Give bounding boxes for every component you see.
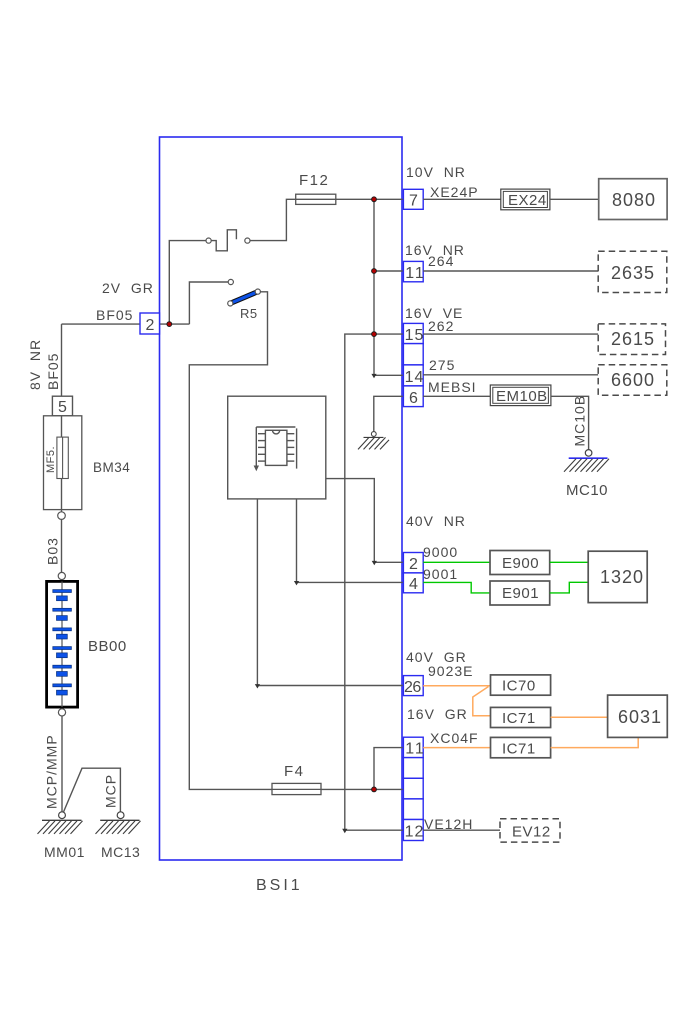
wire E901 to 1320 (green) [550,582,589,593]
node: F4 junction [372,787,377,792]
svg-text:12: 12 [405,824,425,841]
component 8080 [599,179,667,220]
thermal switch contact blade [211,230,236,251]
connector IC71 (lower) [491,737,551,757]
connector IC71 (middle) [491,707,551,727]
pin 2 [403,553,423,573]
svg-text:2: 2 [409,556,418,573]
internal ground node circle [371,432,376,437]
svg-text:7: 7 [409,193,418,210]
pin 11 [403,261,423,281]
svg-text:MC13: MC13 [101,844,140,860]
component 6031 [608,695,668,737]
relay contact R5 moving circle [255,289,260,294]
pin 14 [403,365,423,386]
empty pin box [403,758,423,779]
relay contact R5 pivot circle [228,301,233,306]
svg-text:MF5.: MF5. [45,446,57,473]
svg-text:MC10: MC10 [566,482,608,499]
ground MC10 [564,458,609,472]
svg-text:2: 2 [146,317,155,334]
IC chip symbol U1 [255,427,297,470]
connector E900 [490,551,550,575]
battery top connector circle [58,572,65,579]
connector circle below BM34 [58,512,66,520]
corner arrowheads [371,374,376,378]
svg-text:40V NR: 40V NR [406,513,466,529]
svg-text:9023E: 9023E [428,663,473,679]
wire IC71 lower to 6031 bottom (orange) [551,737,639,747]
svg-text:XE24P: XE24P [430,184,479,200]
svg-text:B03: B03 [45,537,61,565]
svg-text:EV12: EV12 [512,824,551,841]
svg-text:MC10B: MC10B [572,395,588,447]
wire through BM34 [61,416,63,512]
pin 4 [403,573,423,593]
svg-text:BSI1: BSI1 [256,877,303,894]
fuse holder BM34 [44,416,82,510]
connector E901 [490,581,550,605]
wire pin11 to 2635 [423,270,598,272]
pin 12 [403,820,423,841]
empty pin box [403,344,423,365]
MC10 ground node circle [585,450,592,457]
svg-text:IC71: IC71 [502,710,536,727]
wire MM01 to MC13 [64,768,121,812]
wire pin26 to IC70 (orange) [423,685,490,687]
svg-text:EM10B: EM10B [496,388,548,405]
svg-text:11: 11 [405,741,426,758]
battery BB00 [47,581,78,707]
component 2615 (dashed) [598,324,665,355]
wire: IC bottom-left to pin 26 [257,499,403,686]
BSI1 control unit box [160,137,403,860]
wire: IC right side to pin 2 [326,479,403,563]
svg-text:262: 262 [428,318,454,334]
svg-text:BB00: BB00 [88,638,127,655]
thermal switch left contact [206,238,211,243]
wire B03 to battery [61,519,63,572]
fuse MF5 inside BM34 [57,437,68,478]
svg-text:MEBSI: MEBSI [428,379,477,395]
wire: IC bottom-right to pin 4 [297,499,404,583]
pin 6 [403,386,423,407]
svg-text:E901: E901 [502,585,539,602]
svg-text:2V GR: 2V GR [102,280,154,296]
connector EM10B [490,385,551,406]
wire E900 to 1320 (green) [550,561,589,563]
svg-text:9001: 9001 [423,566,458,582]
svg-text:6: 6 [409,390,418,407]
wire EX24 to 8080 [550,198,599,200]
node: pin11 junction [372,269,377,274]
R5 blade (blue) [232,291,259,302]
svg-text:275: 275 [429,357,455,373]
pin 2 (left edge) [140,313,160,334]
wire: R5 fixed contact feed [189,282,228,324]
svg-text:2635: 2635 [611,263,655,283]
pin box 5 [52,396,72,416]
svg-text:BM34: BM34 [93,460,130,475]
svg-text:E900: E900 [502,555,539,572]
wire pin4 to E901 (green) [423,582,490,593]
svg-text:IC71: IC71 [502,741,536,758]
wire BF05 down to box 5 [61,324,63,396]
svg-text:F12: F12 [299,172,329,189]
wire: left pin2 to internal junction [160,323,190,325]
wire pin12 to EV12 [423,829,500,831]
empty pin box [403,799,423,820]
pin 15 [403,323,423,343]
svg-text:BF05: BF05 [45,353,61,390]
svg-text:2615: 2615 [611,329,655,349]
wire pin2 to E900 (green) [423,561,490,563]
node: pin2/BF05 junction [167,322,172,327]
pin 11 lower [403,737,423,757]
internal ground symbol [358,437,389,449]
battery bottom connector circle [58,709,65,716]
svg-text:14: 14 [405,369,425,386]
computer block (IC box) [228,396,326,499]
node: pin15 junction [372,332,377,337]
relay contact R5 fixed circle [228,279,233,284]
node: F12/pin7 junction [372,197,377,202]
pin 7 [403,189,423,209]
empty pin box [403,778,423,799]
svg-text:26: 26 [404,679,421,696]
svg-text:MCP/MMP: MCP/MMP [44,734,60,809]
fuse F12 [296,194,336,204]
svg-text:MCP: MCP [103,774,119,808]
MC13 ground node circle [117,812,124,819]
svg-text:11: 11 [405,265,426,282]
wire: through F12 to pin 7 [296,198,404,200]
svg-text:8080: 8080 [612,190,656,210]
orange branch to IC71 [473,687,491,716]
component 6600 (dashed) [598,365,667,396]
svg-text:BF05: BF05 [96,307,133,323]
thermal switch right contact [245,238,250,243]
pin 26 [403,676,423,696]
svg-text:4: 4 [409,576,418,593]
connector EX24 [501,189,550,210]
wire: pin 15 row to vertical bus x=344.8 [345,334,403,830]
wire battery to MM01 [61,716,63,812]
wire: switch to fuse F12 [250,199,296,240]
wire: R5 moving contact down to F4 feed [189,292,272,790]
component 2635 (dashed) [598,251,667,292]
wire pin14 to 6600 [423,374,598,376]
svg-text:15: 15 [405,327,425,344]
wire: vertical bus from pin7 junction to pin 14 [374,199,403,375]
connector IC70 [491,675,551,695]
connector EV12 (dashed) [500,819,560,842]
wire IC71 to 6031 (orange) [551,716,608,718]
svg-text:XC04F: XC04F [430,730,479,746]
svg-text:16V GR: 16V GR [407,706,468,722]
wire EM10B to MC10 ground [551,396,589,449]
wire pin6 to EM10B [423,395,490,397]
component 1320 [588,551,647,602]
svg-text:264: 264 [428,253,454,269]
wire pin11b to IC71 lower (orange) [423,747,490,749]
svg-text:6600: 6600 [611,370,655,390]
svg-text:MM01: MM01 [44,844,85,860]
wire: pin2(left) feed from BF05 [62,323,141,325]
svg-text:IC70: IC70 [502,678,536,695]
svg-text:10V NR: 10V NR [406,164,466,180]
fuse F4 [272,783,321,794]
svg-text:F4: F4 [284,763,305,780]
svg-text:1320: 1320 [600,567,644,587]
wire: pin 11 stub [374,270,403,272]
wire pin15 to 2615 [423,333,598,335]
svg-text:8V NR: 8V NR [27,339,43,390]
svg-text:9000: 9000 [423,544,458,560]
ground MC13 [96,820,141,834]
svg-text:R5: R5 [240,306,258,321]
wire: pin 6 to internal ground [374,396,403,431]
svg-text:6031: 6031 [618,707,662,727]
wire: junction up to thermal switch [169,241,206,325]
svg-text:EX24: EX24 [508,192,547,209]
wire: F4 to junction and empty pin [272,788,403,790]
svg-text:5: 5 [58,399,67,416]
wire pin7 to EX24 [423,198,501,200]
wire: F4 junction up to pin 11b [374,748,403,790]
MM01 ground node circle [59,812,66,819]
ground MM01 [38,820,83,834]
